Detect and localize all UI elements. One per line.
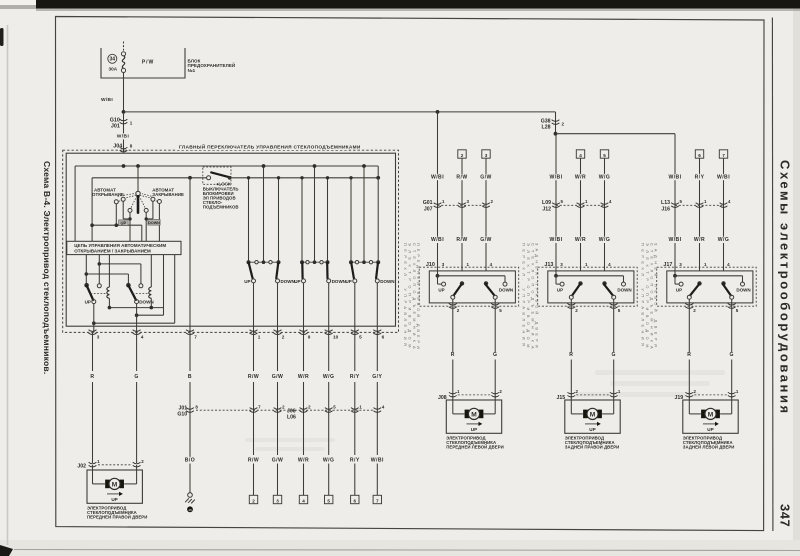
main switch dashed enclosure — [63, 150, 399, 332]
door switch unit 3 contacts — [346, 260, 395, 284]
node: rotary feed on bus1 — [136, 164, 140, 168]
connector J19 — [674, 389, 738, 401]
fuse block box (open top) — [101, 48, 185, 78]
svg-text:1: 1 — [467, 262, 470, 267]
wire: rotary pivot feed — [137, 166, 139, 192]
svg-text:ПЕРЕКЛ. УПРАВЛЕНИЯ: ПЕРЕКЛ. УПРАВЛЕНИЯ — [403, 243, 408, 349]
switch J17 solid box — [667, 271, 753, 303]
svg-text:W/BI: W/BI — [101, 97, 113, 103]
lock switch contact — [207, 176, 211, 180]
coil 1 — [107, 287, 110, 308]
node: pin7 tap on bus2 — [188, 176, 192, 180]
svg-text:G01: G01 — [423, 200, 433, 206]
switch J17 internals — [673, 274, 751, 299]
DOWN tag (rotary) — [148, 220, 160, 226]
svg-text:G: G — [729, 352, 733, 358]
lock switch lever — [211, 172, 229, 177]
svg-text:M: M — [590, 411, 596, 418]
wire labels R G (J17 group) — [687, 352, 735, 359]
svg-text:ЗАДНЕЙ ПРАВОЙ ДВЕРИ: ЗАДНЕЙ ПРАВОЙ ДВЕРИ — [535, 243, 540, 351]
svg-text:UP: UP — [111, 497, 117, 502]
coil 2 — [149, 287, 152, 308]
svg-text:2: 2 — [562, 121, 565, 126]
svg-text:16: 16 — [188, 508, 192, 512]
svg-text:J01: J01 — [111, 123, 120, 129]
wire: ctrl out coil2 — [150, 255, 152, 287]
wire labels row2 (J13 group) — [548, 237, 611, 244]
svg-text:M: M — [708, 411, 714, 418]
svg-text:Схема В-4. Электропривод стекл: Схема В-4. Электропривод стеклоподъемник… — [42, 161, 52, 374]
svg-text:2: 2 — [282, 404, 285, 409]
svg-text:P/W: P/W — [142, 60, 154, 66]
wire colour labels row (R G B R/W ...) — [90, 373, 384, 380]
node: feed junction at fuse wire — [122, 110, 126, 114]
lock switch label ♦LOCK — [216, 182, 232, 187]
door switch unit 3 feeds — [349, 164, 378, 262]
motor (J19) UP arrow — [703, 422, 719, 432]
svg-text:W/BI: W/BI — [717, 174, 730, 180]
label UP (master) — [85, 300, 91, 305]
connector G38/L28 — [541, 118, 565, 130]
svg-text:3: 3 — [560, 262, 563, 267]
rotary contact t1 — [114, 200, 118, 204]
svg-text:W/R: W/R — [575, 237, 586, 243]
svg-text:2: 2 — [575, 308, 578, 313]
wire t1 down — [115, 204, 117, 225]
vertical label column (J17) — [641, 243, 659, 353]
terminal square 4 (J13 group) — [576, 150, 584, 158]
svg-text:W/BI: W/BI — [549, 174, 562, 180]
master UP contact circle — [92, 300, 96, 304]
label АВТОМАТ ОТКРЫВАНИЕ — [92, 187, 134, 197]
wire: pin4 drop — [136, 304, 138, 333]
wire t2 down-jog — [123, 201, 128, 219]
svg-text:G/W: G/W — [480, 174, 492, 180]
svg-text:W/G: W/G — [323, 374, 335, 380]
svg-text:1: 1 — [585, 262, 588, 267]
wire: ctrl return right 1 — [137, 255, 164, 316]
wire labels row1 (J13 group) — [548, 174, 611, 181]
rotary contact t6 — [157, 200, 161, 204]
switch J13 bottom pins — [567, 304, 620, 313]
motor (J19) motor M — [701, 408, 720, 419]
svg-text:7: 7 — [194, 334, 197, 339]
svg-text:ОТКРЫВАНИЕМ / ЗАКРЫВАНИЕМ: ОТКРЫВАНИЕМ / ЗАКРЫВАНИЕМ — [74, 249, 151, 254]
node coil1 bus — [108, 306, 112, 310]
svg-text:B: B — [188, 374, 192, 380]
svg-text:2: 2 — [693, 308, 696, 313]
svg-text:R: R — [687, 352, 691, 358]
wire: ctrl out coil1 — [108, 255, 110, 287]
svg-text:Схемы электрооборудования: Схемы электрооборудования — [778, 160, 793, 416]
svg-text:M: M — [112, 481, 118, 488]
label АВТОМАТ ЗАКРЫВАНИЕ — [142, 187, 184, 197]
svg-text:7: 7 — [376, 498, 379, 503]
node a — [85, 272, 89, 276]
svg-text:UP: UP — [676, 287, 682, 292]
svg-text:W/G: W/G — [599, 237, 611, 243]
switch J17 dashed box — [657, 267, 757, 306]
node: return joins pin4 wire — [135, 313, 139, 317]
node: J04 wire joins bus1 — [122, 164, 126, 168]
svg-text:СТЕКЛОПОДЪЕМНИКА: СТЕКЛОПОДЪЕМНИКА — [412, 243, 417, 353]
switch J17 label and top pins — [663, 262, 730, 268]
door switch unit 1 feeds — [247, 164, 280, 262]
fuse F34 element — [121, 52, 125, 73]
svg-text:5: 5 — [359, 334, 362, 339]
node: branch to J10 group — [436, 110, 440, 114]
svg-text:4: 4 — [727, 262, 730, 267]
svg-text:W/R: W/R — [298, 457, 309, 463]
lower wire colour labels (B/O R/W ...) — [184, 457, 386, 464]
svg-text:ЗАДНЕЙ ЛЕВОЙ ДВЕРИ: ЗАДНЕЙ ЛЕВОЙ ДВЕРИ — [683, 445, 735, 450]
wire labels row2 (J17 group) — [667, 237, 730, 244]
svg-text:4: 4 — [490, 262, 493, 267]
wire labels row1 (J17 group) — [667, 174, 732, 181]
svg-text:W/G: W/G — [718, 237, 730, 243]
switch J13 label and top pins — [544, 262, 611, 268]
wire color label P/W — [142, 60, 154, 66]
svg-text:UP: UP — [244, 279, 250, 284]
svg-text:DOWN: DOWN — [148, 221, 160, 225]
wire W/BI fuse to junction — [123, 73, 125, 112]
svg-text:R/Y: R/Y — [695, 174, 705, 180]
svg-text:2: 2 — [499, 389, 502, 394]
svg-text:UP: UP — [707, 427, 713, 432]
rotary switch pivot — [136, 191, 140, 195]
wire: pin 7 drop — [189, 178, 191, 333]
connector row J01/G10 - J06/L06 dashed link — [196, 409, 373, 411]
wires J13 group mid — [581, 158, 605, 271]
svg-text:B/O: B/O — [185, 457, 195, 463]
wire labels R G (J10 group) — [450, 352, 498, 359]
wire labels row2 (J10 group) — [429, 237, 492, 244]
wire: feed drop to G38 — [555, 112, 557, 134]
svg-text:9: 9 — [308, 334, 311, 339]
svg-text:L06: L06 — [287, 415, 296, 421]
wire labels row1 (J10 group) — [429, 174, 492, 181]
svg-text:DOWN: DOWN — [281, 279, 295, 284]
motor (J08) box — [446, 400, 501, 433]
svg-text:ЦЕПЬ УПРАВЛЕНИЯ АВТОМАТИЧЕСКИМ: ЦЕПЬ УПРАВЛЕНИЯ АВТОМАТИЧЕСКИМ — [74, 243, 166, 248]
svg-text:DOWN: DOWN — [617, 287, 631, 292]
wire: bus2 right segment — [230, 177, 379, 179]
connector G10/J01 — [110, 117, 133, 129]
svg-text:ПЕРЕДНЕЙ ЛЕВОЙ ДВЕРИ: ПЕРЕДНЕЙ ЛЕВОЙ ДВЕРИ — [416, 243, 421, 352]
wire W/BI feed J17 — [674, 134, 676, 276]
lock switch dashed box — [203, 167, 231, 184]
fuse block label БЛОК ПРЕДОХРАНИТЕЛЕЙ №1 — [188, 58, 236, 73]
svg-text:J06: J06 — [287, 408, 296, 414]
motor front-right door (J02) box — [87, 470, 142, 503]
wire W/BI feed J13 — [555, 134, 557, 276]
motor (J08) motor M — [465, 408, 484, 419]
switch J13 solid box — [548, 271, 634, 303]
wire: feed line to J17 group — [556, 133, 676, 135]
svg-text:5: 5 — [499, 308, 502, 313]
node: bus2 drop tap — [90, 223, 94, 227]
wires from main switch pins — [93, 332, 378, 405]
switch J10 bottom pins — [449, 304, 502, 313]
svg-text:4: 4 — [382, 404, 385, 409]
svg-text:R/Y: R/Y — [350, 457, 360, 463]
svg-text:5: 5 — [618, 308, 621, 313]
svg-text:ЭЛЕКТРОПРИВОДОМ: ЭЛЕКТРОПРИВОДОМ — [407, 243, 412, 352]
wires to motor (J10) — [453, 299, 495, 399]
svg-text:R/W: R/W — [456, 237, 467, 243]
node: lock switch output — [228, 176, 232, 180]
connector label J06/L06 — [287, 408, 296, 420]
svg-text:5: 5 — [327, 498, 330, 503]
svg-text:W/BI: W/BI — [431, 174, 444, 180]
vertical label column (J10) — [403, 243, 421, 353]
motor (J15) box — [565, 400, 620, 433]
connector J15 — [556, 389, 620, 401]
wire label W/BI (below G10) — [115, 133, 131, 139]
motor (J19) label — [683, 436, 735, 450]
svg-text:2: 2 — [252, 498, 255, 503]
svg-text:W/BI: W/BI — [431, 237, 444, 243]
svg-text:ЗАКРЫВАНИЕ: ЗАКРЫВАНИЕ — [152, 192, 184, 197]
right caption: Схемы электрооборудования — [778, 160, 793, 416]
switch J10 solid box — [429, 271, 515, 303]
svg-text:J15: J15 — [556, 395, 565, 401]
node t3 join — [128, 217, 131, 220]
svg-text:1: 1 — [736, 389, 739, 394]
svg-text:L09: L09 — [542, 200, 551, 206]
svg-text:W/R: W/R — [694, 237, 705, 243]
switch J10 dashed box — [419, 267, 519, 306]
svg-text:G: G — [134, 374, 138, 380]
wire t3 down — [129, 212, 131, 241]
svg-text:G: G — [493, 352, 497, 358]
rotary contact t4 — [144, 208, 148, 212]
svg-text:5: 5 — [333, 404, 336, 409]
svg-text:UP: UP — [438, 287, 444, 292]
svg-text:DOWN: DOWN — [139, 300, 154, 305]
left caption: Схема В-4 title — [42, 161, 52, 374]
terminal square 5 (J13 group) — [600, 150, 608, 158]
motor front-right door (J02) label — [87, 506, 147, 520]
wire: J04 supply drop — [123, 114, 125, 152]
svg-text:G/W: G/W — [480, 237, 492, 243]
svg-text:DOWN: DOWN — [499, 287, 513, 292]
master DOWN aux contact — [139, 284, 143, 288]
connector L13/J16 — [661, 199, 731, 213]
svg-text:34: 34 — [110, 57, 116, 63]
page number 347 — [778, 504, 793, 527]
svg-text:W/BI: W/BI — [117, 134, 130, 140]
switch J13 dashed box — [538, 267, 638, 306]
terminal squares 2-7 bottom — [249, 464, 381, 504]
svg-text:UP: UP — [121, 220, 127, 225]
svg-text:3: 3 — [276, 498, 279, 503]
svg-text:7: 7 — [722, 153, 725, 158]
svg-text:R/W: R/W — [248, 374, 259, 380]
connector J08 — [438, 389, 502, 401]
motor (J15) label — [565, 436, 620, 450]
svg-text:ПЕРЕДНЕЙ ЛЕВОЙ ДВЕРИ: ПЕРЕДНЕЙ ЛЕВОЙ ДВЕРИ — [446, 445, 503, 450]
svg-text:W/BI: W/BI — [371, 457, 384, 463]
svg-text:№1: №1 — [188, 68, 196, 73]
svg-text:J16: J16 — [661, 206, 670, 212]
svg-text:G38: G38 — [541, 118, 551, 124]
svg-text:10: 10 — [333, 334, 339, 339]
svg-text:UP: UP — [85, 300, 91, 305]
door switch unit 2 contacts — [294, 260, 346, 284]
master DOWN switch lever — [129, 286, 136, 300]
svg-text:ЗАДНЕЙ ПРАВОЙ ДВЕРИ: ЗАДНЕЙ ПРАВОЙ ДВЕРИ — [565, 445, 620, 450]
svg-text:2: 2 — [308, 404, 311, 409]
svg-text:6: 6 — [354, 498, 357, 503]
wire: cross link y225 — [92, 225, 142, 241]
svg-text:G: G — [611, 352, 615, 358]
wire: bus2 left segment (lock switch feed) — [92, 178, 207, 242]
node t4 join — [145, 217, 148, 220]
wire t4 down — [145, 212, 147, 241]
wire stub above fuse — [123, 42, 125, 51]
label DOWN (master) — [139, 300, 154, 305]
svg-text:4: 4 — [608, 262, 611, 267]
svg-text:R/W: R/W — [456, 174, 467, 180]
svg-text:ПЕРЕКЛ. УПРАВЛЕНИЯ: ПЕРЕКЛ. УПРАВЛЕНИЯ — [522, 243, 527, 349]
svg-text:1: 1 — [704, 262, 707, 267]
control circuit box ЦЕПЬ УПРАВЛЕНИЯ — [67, 241, 181, 254]
motor (J08) UP arrow — [467, 422, 483, 432]
svg-text:1: 1 — [130, 121, 133, 126]
svg-text:7: 7 — [258, 404, 261, 409]
motor front-right door (J02) UP arrow — [107, 492, 123, 502]
node coil2 bus — [150, 306, 154, 310]
terminal square 3 (J10 group) — [482, 150, 490, 158]
svg-text:DOWN: DOWN — [736, 287, 750, 292]
svg-text:СТЕКЛОПОДЪЕМНИКА: СТЕКЛОПОДЪЕМНИКА — [649, 243, 654, 353]
motor (J08) label — [446, 436, 503, 450]
svg-text:4: 4 — [579, 153, 582, 158]
svg-text:L28: L28 — [542, 125, 551, 131]
wire: pin3 drop — [93, 304, 95, 333]
node: t1 joins link — [115, 223, 119, 227]
wire: ctrl out a — [85, 255, 87, 284]
svg-text:W/R: W/R — [575, 174, 586, 180]
motor (J15) feed wires — [571, 400, 613, 414]
lock switch description text — [203, 187, 239, 210]
svg-text:ЭЛЕКТРОПРИВОДОМ: ЭЛЕКТРОПРИВОДОМ — [526, 243, 531, 352]
wire B/O to ground — [189, 412, 191, 493]
motor front-right door (J02) motor M — [105, 478, 124, 489]
svg-text:R/Y: R/Y — [350, 374, 360, 380]
svg-text:ПЕРЕКЛ. УПРАВЛЕНИЯ: ПЕРЕКЛ. УПРАВЛЕНИЯ — [641, 243, 646, 349]
svg-text:3: 3 — [97, 334, 100, 339]
wire: horizontal feed line to right doors — [124, 111, 556, 113]
main switch pin row (3 4 7 1 2 9 10 5 6) — [89, 330, 385, 340]
svg-text:W/G: W/G — [323, 457, 335, 463]
svg-text:J08: J08 — [438, 395, 447, 401]
svg-text:W/BI: W/BI — [668, 237, 681, 243]
svg-text:R: R — [90, 374, 94, 380]
motor front-right door (J02) feed wires — [93, 465, 137, 484]
svg-text:1: 1 — [258, 334, 261, 339]
terminal square 2 (J10 group) — [458, 150, 466, 158]
wire: link to contactB — [99, 264, 141, 284]
dashed link lever1-coil1 — [91, 293, 107, 295]
svg-text:R: R — [451, 352, 455, 358]
wires J10 group mid — [462, 158, 486, 271]
svg-text:UP: UP — [557, 287, 563, 292]
switch J17 bottom pins — [685, 304, 738, 313]
node: return joins pin3 wire — [92, 321, 96, 325]
svg-text:СТЕКЛОПОДЪЕМНИКА: СТЕКЛОПОДЪЕМНИКА — [530, 243, 535, 353]
wire: link to pivotB — [86, 274, 128, 284]
svg-text:1: 1 — [359, 404, 362, 409]
svg-text:2: 2 — [282, 334, 285, 339]
svg-text:ЭЛЕКТРОПРИВОДОМ: ЭЛЕКТРОПРИВОДОМ — [645, 243, 650, 352]
door switch unit 2 feeds — [300, 164, 329, 262]
wires to motor (J17) — [689, 299, 731, 399]
svg-text:G/Y: G/Y — [372, 374, 382, 380]
svg-text:3: 3 — [679, 262, 682, 267]
wire label W/BI — [101, 97, 113, 103]
node: bus1-bus2 junction right — [376, 176, 380, 180]
node b — [98, 262, 102, 266]
svg-text:5: 5 — [736, 308, 739, 313]
right caption separator rule — [771, 18, 774, 532]
wire t5 down-jog — [148, 201, 153, 219]
svg-text:J02: J02 — [77, 463, 86, 469]
door switch unit 1 contacts — [244, 260, 295, 284]
connector J04 pin 8 — [113, 143, 133, 152]
svg-text:UP: UP — [294, 279, 300, 284]
master DOWN switch pivot — [126, 283, 131, 288]
door switch unit 3 output wires — [355, 283, 378, 333]
svg-text:30A: 30A — [108, 66, 117, 71]
wire t6 down — [158, 204, 160, 242]
rotary switch lever — [137, 196, 140, 212]
svg-text:R/W: R/W — [248, 457, 259, 463]
connector L09/J12 — [542, 199, 612, 213]
master UP switch lever — [87, 286, 93, 300]
motor (J19) box — [683, 400, 738, 433]
svg-text:ПЕРЕДНЕЙ ПРАВОЙ ДВЕРИ: ПЕРЕДНЕЙ ПРАВОЙ ДВЕРИ — [87, 515, 147, 520]
master DOWN contact circle — [135, 300, 139, 304]
svg-text:UP: UP — [471, 427, 477, 432]
terminal square 6 (J17 group) — [695, 150, 703, 158]
svg-text:L13: L13 — [661, 200, 670, 206]
switch J10 label and top pins — [426, 262, 493, 268]
connector J01/G10 on wire B — [177, 404, 198, 463]
svg-text:347: 347 — [778, 504, 793, 527]
wire W/BI feed J10 — [437, 112, 439, 276]
wire: bus1 (battery feed inside switch) — [75, 166, 378, 241]
svg-text:ЗАДНЕЙ ЛЕВОЙ ДВЕРИ: ЗАДНЕЙ ЛЕВОЙ ДВЕРИ — [654, 243, 659, 350]
wire: ctrl out b — [98, 255, 100, 284]
wire labels R G (J13 group) — [569, 352, 617, 359]
door switch unit 2 output wires — [304, 283, 329, 333]
rotary contact t3 — [128, 208, 132, 212]
wire G to J02 — [136, 405, 138, 463]
svg-text:2: 2 — [457, 308, 460, 313]
master UP aux contact — [97, 284, 101, 288]
svg-text:J07: J07 — [424, 206, 433, 212]
svg-text:R: R — [569, 352, 573, 358]
wires J17 group mid — [700, 158, 724, 271]
ground symbol — [185, 493, 195, 513]
svg-text:W/R: W/R — [298, 374, 309, 380]
rotary dashed contact fan — [118, 195, 158, 208]
rotary contact t2 — [121, 197, 125, 201]
vertical label column (J13) — [522, 243, 540, 353]
master UP switch pivot — [84, 283, 89, 288]
